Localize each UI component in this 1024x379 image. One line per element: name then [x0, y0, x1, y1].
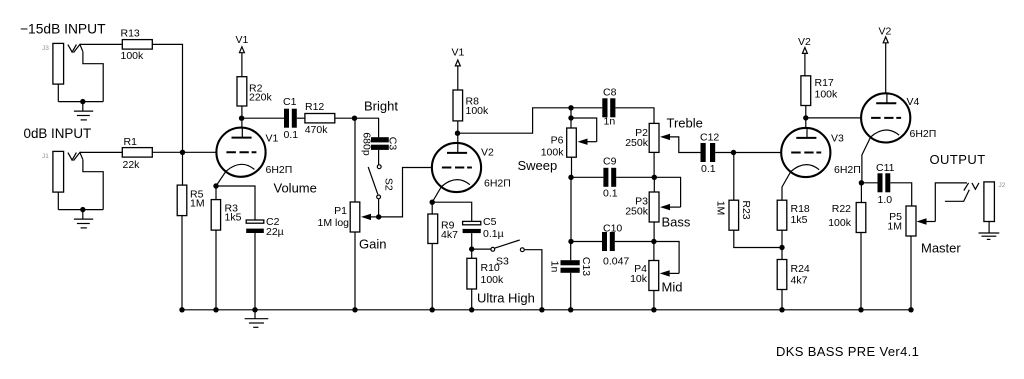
wire J3 tip to R13 [80, 43, 122, 45]
node Bright [352, 116, 357, 121]
svg-text:R13: R13 [121, 28, 140, 40]
node R17 bottom / V3 plate [803, 115, 808, 120]
capacitor C1 0.1 [242, 96, 299, 141]
capacitor C3 680p [355, 118, 399, 156]
svg-text:P1: P1 [334, 205, 347, 217]
switch S2 [368, 150, 394, 217]
svg-text:V1: V1 [452, 47, 465, 59]
wire rail C9 to C10 [570, 177, 572, 241]
node sweep rail top [568, 105, 573, 110]
svg-text:4k7: 4k7 [791, 275, 808, 287]
ground (J3) [74, 102, 93, 120]
svg-text:Volume: Volume [274, 181, 317, 196]
svg-text:1k5: 1k5 [791, 214, 808, 226]
svg-text:0dB INPUT: 0dB INPUT [24, 126, 92, 141]
svg-text:1k5: 1k5 [225, 212, 242, 224]
svg-text:22µ: 22µ [266, 226, 284, 238]
svg-text:C8: C8 [603, 87, 617, 99]
svg-text:0.047: 0.047 [603, 256, 629, 268]
wire J1 tip to R1 [80, 151, 122, 153]
svg-text:C9: C9 [603, 156, 617, 168]
node V2 cathode [430, 200, 435, 205]
svg-text:Mid: Mid [662, 280, 683, 295]
svg-text:OUTPUT: OUTPUT [930, 152, 986, 167]
svg-text:Ultra High: Ultra High [477, 291, 535, 306]
junction bus P4 [651, 307, 656, 312]
resistor R10 100k [467, 249, 504, 310]
svg-text:P6: P6 [551, 135, 564, 147]
wire P5 wiper to output jack [935, 183, 967, 222]
ground (J1) [74, 210, 93, 228]
svg-text:1M: 1M [190, 198, 205, 210]
op V2 tube 6N2P [432, 143, 511, 202]
junction bus C2 [252, 307, 257, 312]
svg-text:4k7: 4k7 [441, 229, 458, 241]
resistor R2 220k [237, 77, 273, 128]
resistor R24 4k7 [777, 260, 810, 310]
ground bus [181, 309, 911, 311]
svg-text:100k: 100k [466, 105, 490, 117]
svg-text:220k: 220k [249, 92, 273, 104]
jack J1 [42, 151, 103, 209]
node C10 rail tap [568, 239, 573, 244]
svg-text:Gain: Gain [359, 237, 386, 252]
svg-text:C5: C5 [483, 216, 497, 228]
svg-text:R1: R1 [124, 136, 138, 148]
svg-text:V2: V2 [798, 36, 811, 48]
wire V3 plate to V4 grid [806, 117, 861, 119]
svg-text:1.0: 1.0 [878, 194, 893, 206]
node input junction [180, 150, 185, 155]
svg-text:6Н2П: 6Н2П [484, 178, 511, 190]
svg-text:C3: C3 [387, 137, 399, 151]
svg-text:Bass: Bass [662, 215, 691, 230]
ground (J2) [979, 222, 1000, 240]
capacitor C13 1n [549, 242, 593, 310]
svg-text:1n: 1n [549, 261, 561, 273]
node P3 bottom / P4 top [651, 239, 656, 244]
svg-text:R12: R12 [305, 101, 324, 113]
resistor R17 100k [801, 76, 838, 128]
svg-text:0.1: 0.1 [603, 188, 618, 200]
potentiometer P6 100k [541, 108, 597, 178]
potentiometer P1 1M log [317, 118, 378, 310]
svg-text:470k: 470k [305, 124, 329, 136]
svg-text:250k: 250k [625, 206, 649, 218]
junction bus P1 [352, 307, 357, 312]
svg-text:C12: C12 [700, 132, 719, 144]
svg-text:Sweep: Sweep [518, 158, 558, 173]
node V1 plate [239, 116, 244, 121]
svg-text:1M: 1M [715, 201, 727, 216]
svg-text:R22: R22 [832, 203, 851, 215]
svg-text:V1: V1 [266, 133, 279, 145]
wire wiper to V2 grid [379, 168, 432, 217]
svg-text:0.1: 0.1 [701, 163, 716, 175]
supply arrow V2 (V4) [879, 26, 892, 94]
svg-text:6Н2П: 6Н2П [834, 164, 861, 176]
svg-text:S2: S2 [382, 178, 394, 191]
svg-text:100k: 100k [828, 217, 852, 229]
capacitor C5 0.1u [432, 202, 503, 249]
jack J3 [42, 43, 103, 101]
svg-text:100k: 100k [541, 147, 565, 159]
svg-text:R17: R17 [815, 77, 834, 89]
junction bus R24 [779, 307, 784, 312]
svg-text:−15dB INPUT: −15dB INPUT [20, 22, 106, 37]
resistor R5 1M [177, 152, 204, 309]
junction J1 sleeve [80, 207, 85, 212]
svg-text:6Н2П: 6Н2П [910, 128, 937, 140]
capacitor C2 22u [216, 186, 284, 310]
jack J2 output [945, 182, 1006, 222]
svg-text:R24: R24 [791, 263, 810, 275]
resistor R22 100k [828, 183, 866, 310]
resistor R8 100k [453, 90, 489, 143]
svg-text:10k: 10k [630, 273, 648, 285]
node C12 out / R23 [731, 150, 736, 155]
svg-text:250k: 250k [625, 137, 649, 149]
capacitor C11 1.0 [861, 162, 911, 206]
supply arrow V1 (R2) [236, 34, 249, 77]
junction bus S3 [539, 307, 544, 312]
resistor R12 470k [297, 101, 355, 136]
svg-text:V1: V1 [236, 34, 249, 46]
svg-text:100k: 100k [815, 89, 839, 101]
wire C12 node to V3 grid [734, 152, 782, 154]
node C5 bottom [469, 246, 474, 251]
svg-text:J2: J2 [999, 182, 1006, 189]
op V3 tube 6N2P [781, 128, 861, 200]
potentiometer P2 250k [625, 123, 700, 177]
junction bus R3 [213, 307, 218, 312]
node P6 wiper tap [568, 115, 573, 120]
capacitor C8 1n [571, 87, 654, 128]
junction bus R10 [469, 307, 474, 312]
svg-text:Treble: Treble [667, 116, 703, 131]
svg-text:R23: R23 [740, 200, 752, 219]
supply arrow V1 (R8) [452, 47, 465, 91]
svg-text:C13: C13 [580, 257, 592, 276]
junction J3 sleeve [80, 99, 85, 104]
resistor R9 4k7 [428, 202, 458, 310]
node V4 cathode [859, 180, 864, 185]
svg-text:6Н2П: 6Н2П [266, 164, 293, 176]
resistor R23 1M [715, 153, 782, 248]
svg-text:V2: V2 [481, 147, 494, 159]
switch S3 [472, 240, 542, 310]
svg-text:C10: C10 [603, 223, 622, 235]
svg-text:100k: 100k [121, 50, 145, 62]
op V1 tube 6N2P [216, 128, 292, 186]
junction bus C13 [568, 307, 573, 312]
svg-text:1M log: 1M log [317, 217, 349, 229]
node C9 rail tap [568, 175, 573, 180]
supply arrow V2 (R17) [798, 36, 811, 76]
node R8 bottom [455, 131, 460, 136]
svg-text:22k: 22k [123, 159, 141, 171]
capacitor C12 0.1 [700, 132, 734, 176]
op V4 tube 6N2P [861, 93, 936, 183]
junction bus R22 [858, 307, 863, 312]
svg-text:V4: V4 [907, 96, 920, 108]
svg-text:0.1: 0.1 [284, 129, 299, 141]
svg-text:J3: J3 [42, 45, 49, 52]
junction bus R9 [430, 307, 435, 312]
svg-text:C11: C11 [876, 162, 895, 174]
potentiometer P3 250k [625, 177, 680, 241]
svg-text:DKS BASS PRE Ver4.1: DKS BASS PRE Ver4.1 [776, 344, 919, 359]
potentiometer P5 1M [887, 206, 935, 310]
svg-text:100k: 100k [481, 274, 505, 286]
svg-text:C1: C1 [283, 96, 297, 108]
svg-text:1M: 1M [887, 221, 902, 233]
ground (bus) [245, 310, 269, 328]
svg-text:V2: V2 [879, 26, 892, 38]
junction bus R5 [179, 307, 184, 312]
svg-text:680p: 680p [361, 132, 373, 156]
svg-text:S3: S3 [496, 256, 509, 268]
svg-text:1n: 1n [604, 116, 616, 128]
resistor R13 100k [121, 28, 153, 63]
svg-text:J1: J1 [42, 153, 49, 160]
resistor R3 1k5 [211, 186, 241, 310]
capacitor C10 0.047 [571, 223, 654, 268]
node V1 cathode [213, 183, 218, 188]
node P1 wiper [376, 214, 381, 219]
wire R1 to V1 grid [152, 151, 216, 153]
resistor R1 22k [122, 136, 152, 171]
potentiometer P4 10k [630, 242, 679, 310]
resistor R18 1k5 [777, 200, 810, 259]
node P2 bottom / P3 top [652, 175, 657, 180]
wire R13 to input node [152, 44, 182, 152]
svg-text:0.1µ: 0.1µ [483, 228, 504, 240]
junction bus P5 [908, 307, 913, 312]
svg-text:Bright: Bright [364, 98, 398, 113]
svg-text:Master: Master [921, 241, 961, 256]
node R23 / R18 / R24 [779, 245, 784, 250]
capacitor C9 0.1 [571, 156, 654, 200]
wire R8 node to sweep rail [458, 108, 572, 133]
svg-text:V3: V3 [831, 133, 844, 145]
